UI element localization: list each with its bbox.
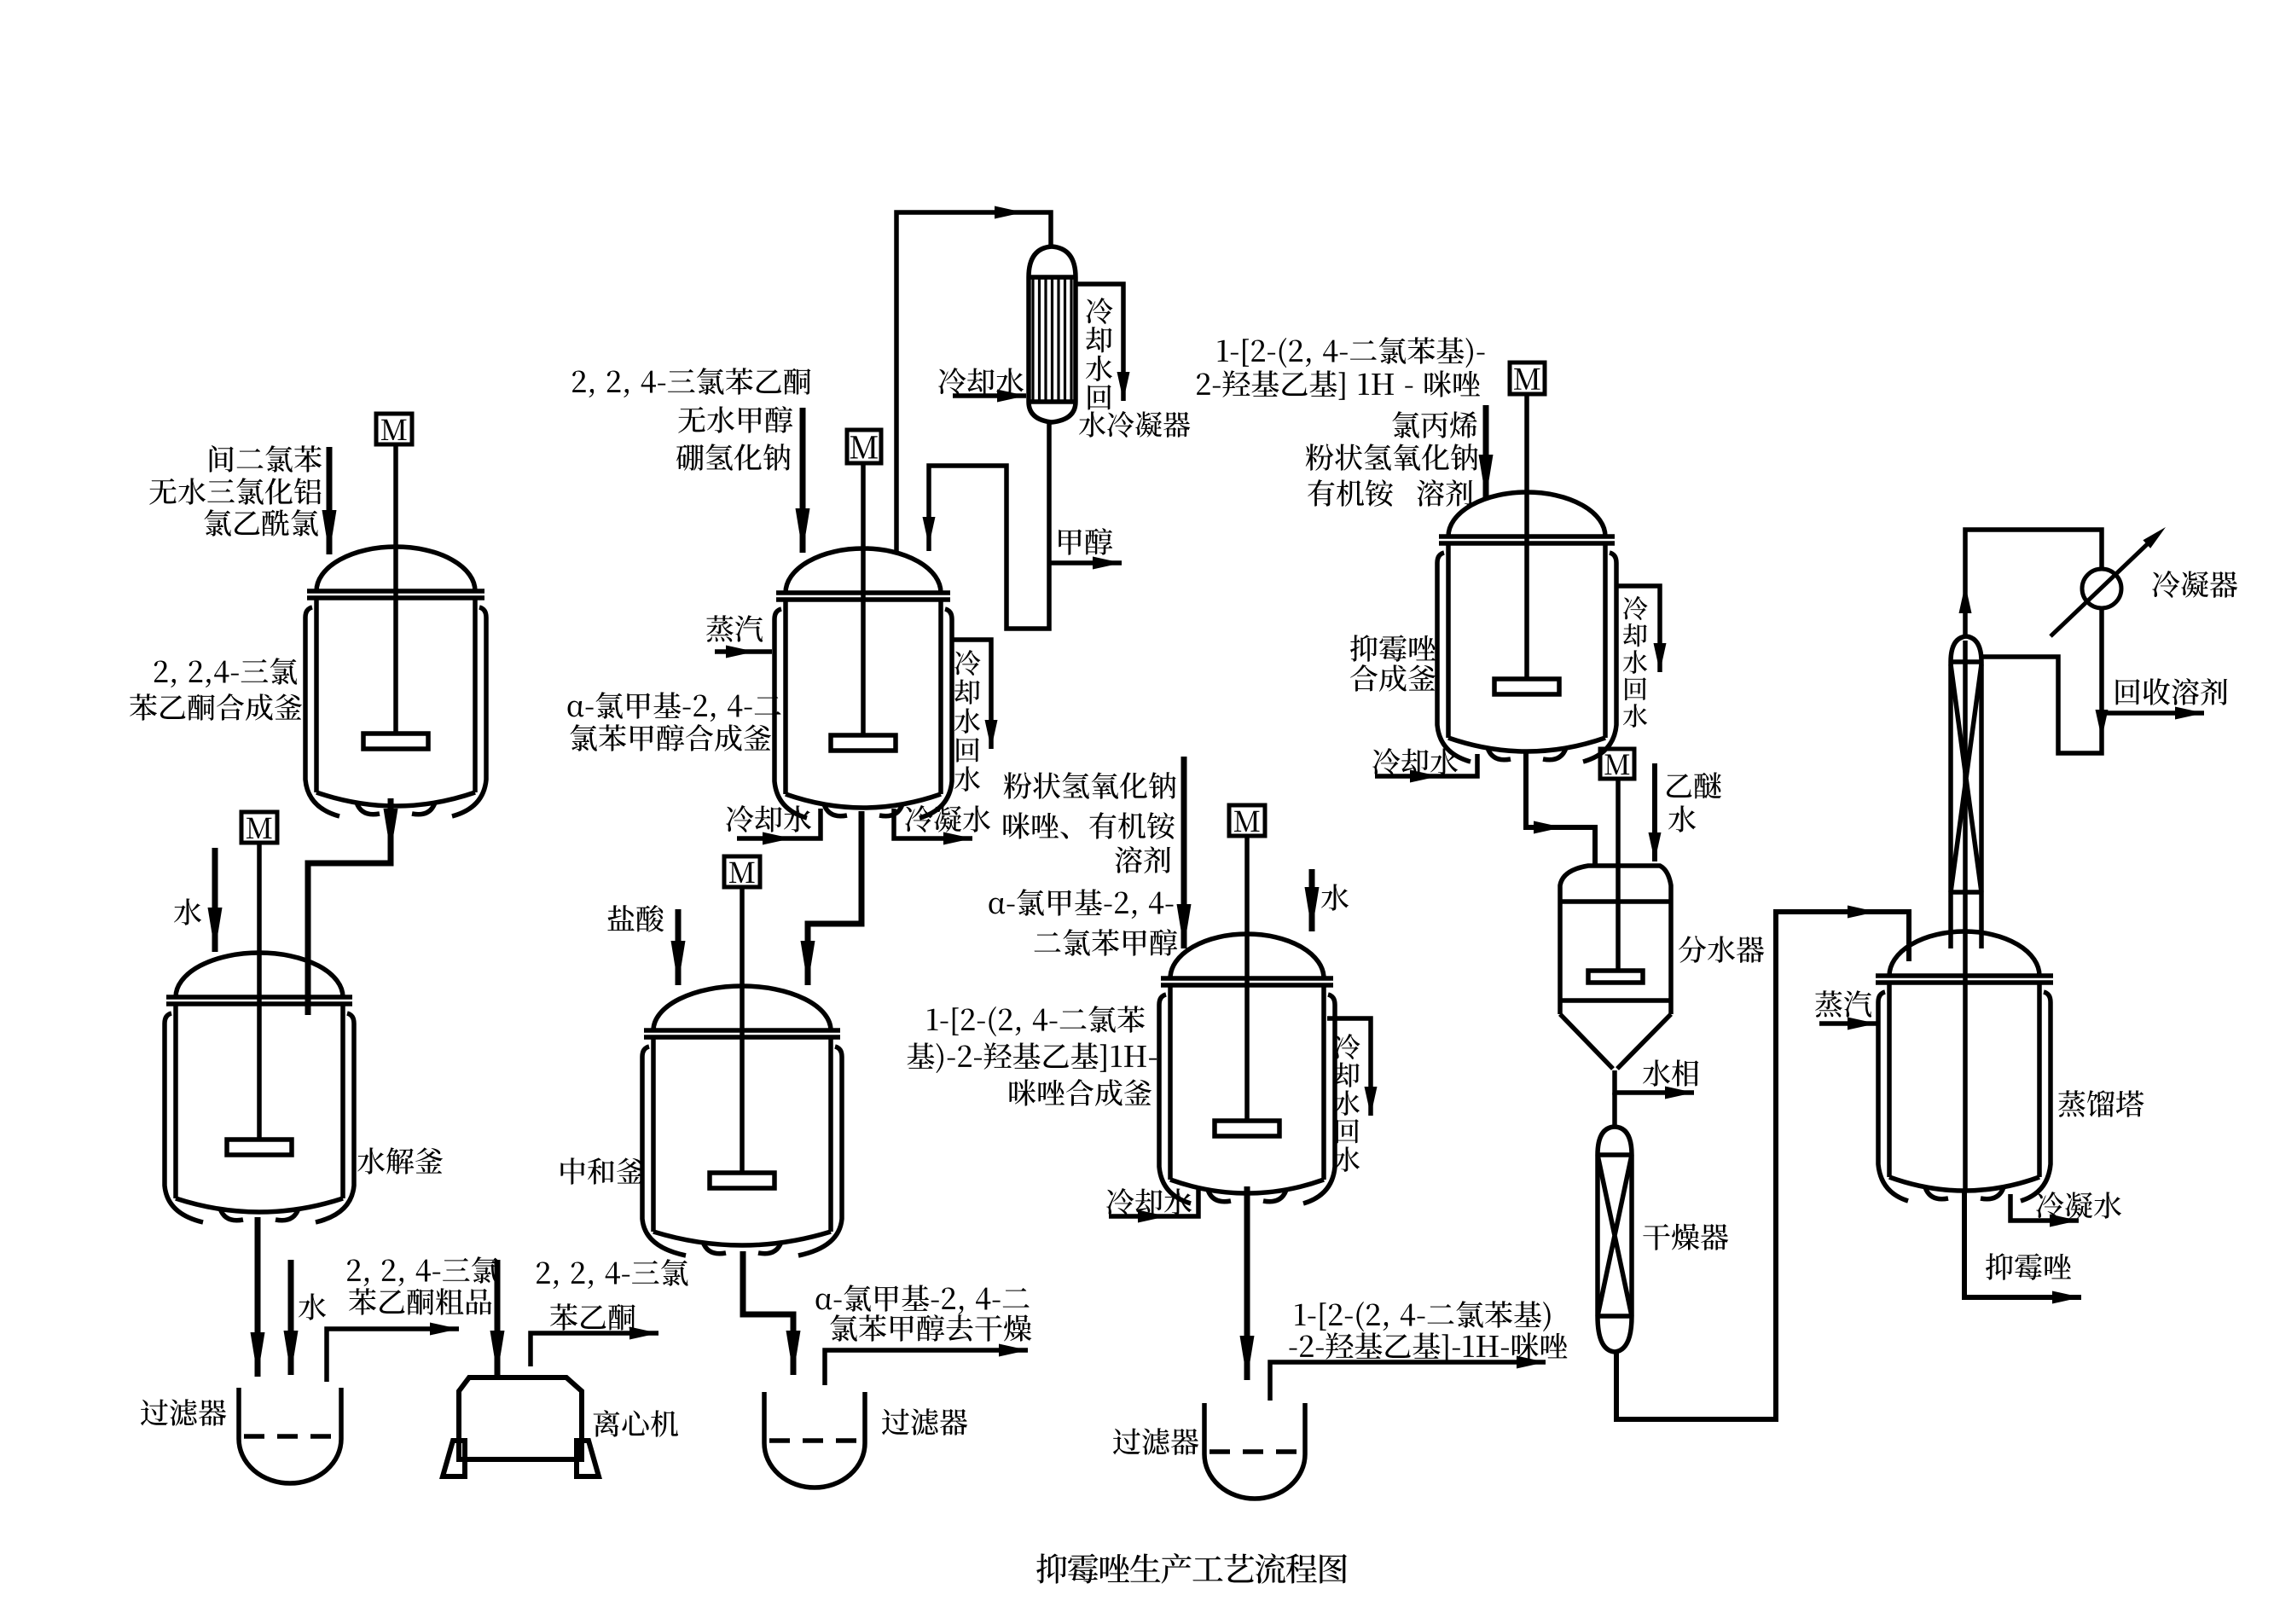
filter F1 过滤器 [239, 1388, 341, 1483]
label R3 name line1 [568, 692, 781, 722]
label centrifuge output line1 [537, 1259, 687, 1289]
label R4 name [560, 1157, 644, 1184]
HCl feed arrow into R4 [676, 909, 682, 985]
pipe dryer outlet riser to distillation kettle [1616, 912, 1909, 1419]
label condensate out of still [2036, 1192, 2121, 1219]
label still name [2058, 1090, 2143, 1117]
label R3 feed line2 [678, 406, 792, 433]
condenser C2 冷凝器 (circle symbol) [2082, 569, 2121, 608]
M-box motor of reactor R2 [241, 812, 277, 843]
label imazalil product out [1986, 1253, 2071, 1280]
label R5 feed line3 [1115, 846, 1170, 873]
label R5 feed line1 [1004, 772, 1176, 799]
condensate out of R3 jacket [894, 809, 972, 838]
M-box motor of reactor R6 [1510, 362, 1545, 394]
pipe R3 vapor riser to condenser C1 [896, 212, 1051, 551]
cooling water arrow into R5 jacket [1109, 1189, 1198, 1216]
pipe F2 output to drying [825, 1350, 1028, 1385]
label water into separator [1668, 805, 1696, 832]
feed arrow into centrifuge [495, 1260, 501, 1375]
reactor R1 2,2,4-三氯苯乙酮合成釜 [305, 444, 486, 816]
label cooling water into C1 [938, 368, 1024, 395]
label steam into still [1815, 990, 1871, 1017]
pipe R3 cooling water return [950, 640, 991, 749]
ether/water feed arrow into separator [1652, 763, 1657, 861]
label R1 feed line1 [210, 445, 322, 473]
reactor R6 抑霉唑合成釜 [1437, 394, 1616, 762]
pipe C1 cooling water return out [1076, 284, 1123, 401]
label R5 name line1 [927, 1006, 1145, 1036]
pipe F1 output crude ketone [327, 1329, 459, 1382]
condensate arrow out of still jacket [2010, 1194, 2079, 1221]
label R5 feed line5 [1035, 929, 1178, 956]
filter F2 过滤器 [764, 1392, 865, 1488]
label C1 cooling water return (vertical) [1086, 298, 1113, 410]
label F1 output line1 [347, 1256, 498, 1286]
packed column of distillation still [1951, 636, 1981, 1192]
label water into F1 [299, 1293, 326, 1319]
label water into R5 [1321, 884, 1349, 910]
pipe F3 output [1270, 1362, 1546, 1401]
label R1 name line1 [154, 658, 297, 687]
M-box motor of reactor R3 [847, 430, 881, 463]
label steam into R3 [706, 615, 763, 641]
label R3 name line2 [570, 724, 771, 751]
label R5 feed line2 [1003, 812, 1175, 839]
filter F3 过滤器 [1204, 1403, 1305, 1499]
label dryer [1643, 1223, 1728, 1250]
label condensate R3 bottom right [905, 805, 990, 832]
pipe R6 cooling water return [1616, 586, 1660, 672]
water feed arrow into R5 [1309, 869, 1315, 931]
label R5 cooling water return (vertical) [1334, 1034, 1360, 1172]
R3 feed arrow [800, 408, 806, 553]
reactor R4 中和釜 [642, 887, 842, 1256]
pipe R5 cooling water return [1327, 1018, 1371, 1116]
pipe R4 outlet to filter F2 [743, 1251, 793, 1375]
label R6 feed line5a [1308, 479, 1393, 507]
pipe centrifuge output [531, 1333, 658, 1366]
label methanol takeoff [1059, 528, 1112, 555]
label R5 name line3 [1009, 1079, 1152, 1106]
label R6 name line2 [1350, 664, 1436, 692]
label R6 name line1 [1350, 635, 1436, 662]
separator 分水器 [1560, 779, 1671, 1069]
cooling water arrow into C1 [953, 393, 1026, 398]
label R5 name line2 [908, 1042, 1157, 1073]
R1 feed arrow [327, 447, 333, 554]
label cooling water into R5 [1106, 1188, 1192, 1215]
label cooling water R3 bottom left [726, 805, 811, 832]
label R6 feed line1 [1218, 337, 1485, 368]
label R1 name line2 [130, 693, 302, 721]
pipe R2 outlet to filter F1 [255, 1217, 261, 1377]
pipe R6 outlet to separator [1526, 751, 1595, 865]
methanol branch arrow [1049, 560, 1122, 565]
label R1 feed line3 [204, 509, 317, 536]
reactor R3 α-氯甲基-2,4-二氯苯甲醇合成釜 [774, 463, 952, 818]
label R3 feed line1 [572, 368, 810, 397]
label R5 feed line4 [989, 889, 1173, 919]
column overhead vapor line to condenser C2 [1965, 530, 2102, 636]
steam arrow into still jacket [1819, 1021, 1877, 1026]
label condenser C2 [2152, 571, 2237, 598]
M-box motor of reactor R5 [1229, 805, 1265, 836]
caption title [1036, 1553, 1347, 1584]
label F2 [882, 1408, 967, 1435]
label C1 condenser name [1079, 411, 1190, 438]
label F2 output line2 [830, 1314, 1031, 1342]
R6 feed arrow [1483, 405, 1489, 499]
label recovered solvent out [2116, 678, 2228, 705]
label R3 feed line3 [676, 444, 791, 471]
R5 feed arrow [1181, 757, 1187, 948]
label R2 name [357, 1147, 443, 1174]
water feed arrow into R2 [212, 848, 218, 952]
label centrifuge [594, 1410, 678, 1437]
label R6 feed line2 [1197, 370, 1480, 399]
label R6 feed line5b [1417, 479, 1472, 507]
label R6 cooling water return (vertical) [1623, 596, 1648, 728]
pipe R1 outlet to R2 [308, 798, 391, 1015]
M-box motor of separator [1600, 749, 1634, 779]
label cooling water into R6 [1372, 748, 1458, 775]
M-box motor of reactor R1 [376, 414, 412, 444]
label aqueous phase out [1643, 1059, 1698, 1086]
reactor R2 水解釜 [165, 843, 354, 1222]
cooling water arrow into R6 jacket [1375, 754, 1477, 776]
M-box motor of reactor R4 [724, 856, 760, 887]
reactor R5 1-[2-(2,4-二氯苯基)-2-羟基乙基]1H-咪唑合成釜 [1159, 836, 1335, 1203]
pipe imazalil product out of still bottom [1964, 1192, 2081, 1297]
label diethyl ether into separator [1667, 772, 1721, 798]
label R1 feed line2 [149, 478, 321, 505]
centrifuge 离心机 [443, 1377, 599, 1476]
label R6 feed line3 [1392, 411, 1476, 438]
water feed arrow into F1 [288, 1260, 294, 1375]
label hydrochloric acid into R4 [607, 905, 664, 932]
recovered solvent arrow [2102, 710, 2204, 716]
label separator [1679, 936, 1764, 963]
label F1 output line2 [349, 1288, 491, 1314]
label R3 cooling water return (vertical) [954, 650, 981, 792]
pipe C2 condensate and reflux return to column [1983, 608, 2102, 753]
distillation still 蒸馏塔 kettle [1876, 931, 2053, 1201]
cooling water into R3 jacket [737, 809, 821, 838]
pipe R3 outlet to R4 [808, 811, 861, 985]
label F1 [141, 1399, 226, 1426]
label centrifuge output line2 [550, 1303, 635, 1330]
dryer 干燥器 [1598, 1127, 1632, 1352]
label F3 output line1 [1295, 1301, 1550, 1331]
pipe R5 outlet to filter F3 [1244, 1186, 1250, 1380]
label R6 feed line4 [1306, 444, 1478, 471]
label F3 output line2 [1289, 1332, 1567, 1361]
condenser C1 冷却水回水冷凝器 [1029, 246, 1076, 422]
pipe separator to dryer [1612, 1093, 1617, 1127]
label F2 output line1 [816, 1285, 1030, 1314]
pipe C1 condensate reflux loop back to R3 [929, 422, 1049, 629]
label water into R2 [174, 898, 201, 925]
label F3 [1113, 1428, 1198, 1455]
steam arrow into R3 jacket [715, 649, 772, 654]
aqueous phase arrow [1615, 1070, 1694, 1093]
